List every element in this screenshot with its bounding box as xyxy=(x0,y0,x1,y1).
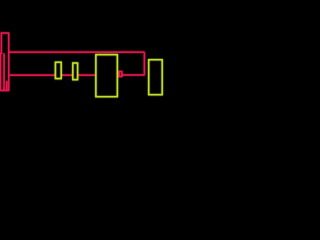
wire: short stub at left image edge xyxy=(0,52,2,54)
wire: lower horizontal net xyxy=(9,74,117,76)
connector J1 bottom wall xyxy=(0,90,9,92)
wire: lower return run xyxy=(122,74,144,76)
component H yellow box xyxy=(149,60,163,95)
connector J1 upper shell (open-bottom box) xyxy=(1,33,8,53)
connector J1 left wall xyxy=(0,53,1,90)
connector J1 inner divider wall xyxy=(3,53,5,90)
component G small red box xyxy=(119,72,122,77)
wire: vertical bus on right side of connector J1 xyxy=(8,32,10,90)
black body fills of yellow components (hide wires passing behind) xyxy=(55,55,162,97)
component E small yellow box xyxy=(55,62,61,78)
wire: upper horizontal net xyxy=(9,51,145,53)
component D large yellow box xyxy=(96,55,118,97)
connector J1 short divider xyxy=(6,81,8,91)
component F small yellow box xyxy=(73,63,78,80)
wire: right vertical drop xyxy=(143,52,145,75)
